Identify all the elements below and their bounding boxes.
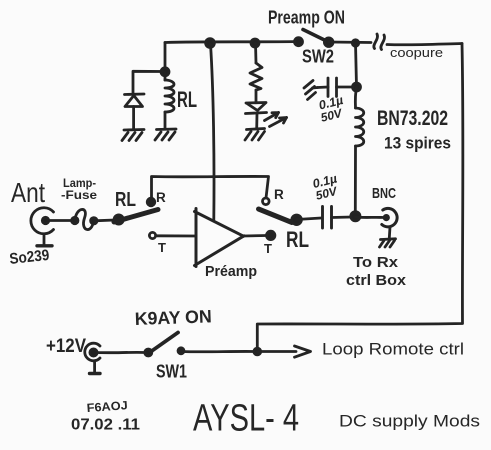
node top rail junction 1	[206, 39, 215, 48]
svg-text:R: R	[156, 190, 166, 205]
wire so239 to fuse	[48, 219, 72, 222]
connector BNC	[382, 208, 397, 238]
svg-text:+12V: +12V	[46, 336, 86, 357]
op-amp preamp triangle	[195, 209, 245, 267]
wire node to diode	[133, 71, 165, 93]
svg-text:13 spires: 13 spires	[384, 134, 451, 153]
svg-text:To Rx: To Rx	[353, 254, 399, 271]
transformer winding BN73.202	[355, 87, 363, 215]
wire common to cap	[297, 218, 321, 220]
wire cap branch vertical	[356, 43, 357, 87]
relay contact input T	[149, 232, 155, 238]
switch SW2	[295, 30, 334, 47]
LED	[246, 103, 287, 130]
diode D1	[125, 94, 145, 129]
svg-text:BNC: BNC	[372, 185, 396, 202]
wire +12V to SW1	[97, 351, 145, 354]
svg-text:BN73.202: BN73.202	[377, 107, 448, 130]
relay contact output lever	[259, 209, 293, 223]
node loop ctrl junction	[254, 348, 261, 355]
svg-text:SW1: SW1	[156, 362, 187, 382]
capacitor 0.1u 50V output	[323, 207, 332, 229]
svg-text:RL: RL	[177, 87, 197, 112]
svg-text:Preamp ON: Preamp ON	[268, 8, 345, 28]
wire junction to BNC	[355, 216, 383, 219]
wire right side loop	[257, 44, 463, 352]
relay contact input R	[147, 198, 155, 206]
connector +12V	[85, 343, 100, 373]
wire preamp output	[243, 234, 267, 237]
wire coupure to right edge	[387, 44, 462, 45]
node top rail junction 2	[251, 39, 259, 47]
node cap branch top	[352, 40, 358, 46]
wire preamp power feed	[211, 44, 215, 220]
svg-text:Lamp-: Lamp-	[63, 178, 96, 190]
relay contact input common	[114, 215, 123, 224]
break coupure	[374, 34, 385, 50]
ground under RL	[155, 129, 176, 140]
wire cap to junction	[332, 216, 353, 219]
svg-text:coopure: coopure	[390, 45, 443, 60]
node RL top	[161, 68, 169, 76]
svg-text:AYSL- 4: AYSL- 4	[193, 398, 299, 440]
svg-text:DC supply Mods: DC supply Mods	[339, 412, 480, 431]
ground under diode	[122, 130, 144, 141]
wire fuse to relay contact	[94, 219, 115, 223]
svg-text:SW2: SW2	[302, 47, 334, 67]
wire R-R across top of preamp	[152, 176, 269, 202]
relay contact input lever	[114, 210, 158, 223]
wire SW2 to break	[329, 41, 371, 44]
relay coil RL	[165, 72, 174, 129]
connector SO239	[31, 208, 54, 246]
svg-text:Préamp: Préamp	[205, 263, 257, 280]
svg-text:F6AOJ: F6AOJ	[86, 398, 128, 415]
fuse lamp-fuse	[72, 209, 97, 229]
svg-text:07.02 .11: 07.02 .11	[71, 417, 140, 434]
svg-text:-Fuse: -Fuse	[61, 190, 97, 202]
wire arrow loop remote ctrl	[257, 346, 310, 357]
svg-text:T: T	[158, 240, 166, 255]
svg-text:ctrl Box: ctrl Box	[346, 272, 407, 289]
svg-text:RL: RL	[115, 189, 136, 211]
relay contact output common	[292, 215, 302, 225]
svg-text:T: T	[264, 241, 272, 256]
svg-text:Loop Romote ctrl: Loop Romote ctrl	[322, 340, 464, 359]
wire SW1 to junction	[181, 350, 254, 353]
ground under LED	[245, 129, 265, 141]
node cap junction	[353, 83, 361, 91]
svg-text:Ant: Ant	[11, 177, 45, 208]
wire from top rail down to RL node	[164, 43, 167, 72]
switch SW1	[145, 333, 184, 357]
svg-text:K9AY ON: K9AY ON	[134, 306, 212, 329]
resistor	[250, 43, 262, 102]
svg-text:R: R	[274, 187, 284, 202]
relay contact output T	[267, 231, 275, 239]
relay contact output R	[263, 198, 270, 205]
ground at BNC	[380, 239, 396, 247]
capacitor 0.1u 50V top	[318, 78, 353, 97]
chassis ground at cap	[304, 81, 318, 100]
svg-text:RL: RL	[286, 227, 309, 252]
wire T to preamp input	[156, 234, 196, 237]
node output junction	[351, 212, 360, 221]
wire top rail left	[165, 42, 298, 43]
